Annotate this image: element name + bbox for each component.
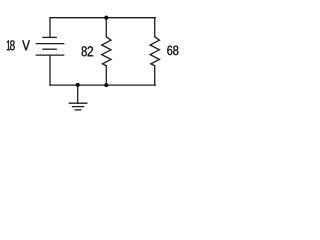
label 68 digit 8 [173,46,178,56]
wire battery top stub [49,18,51,37]
junction dot ground node [76,83,80,87]
label 82 digit 8 [82,46,87,56]
ground stem [77,85,79,103]
junction dot bottom node B at R82 [104,83,108,87]
wire R82 bottom stub [105,66,107,85]
wire R68 top stub [154,18,156,37]
label 68 digit 6 [167,46,172,56]
label 82 digit 2 [88,46,94,56]
wire battery bottom stub [49,55,51,85]
resistor R82 zigzag [102,37,111,66]
ground bar 3 [75,109,81,111]
ground bar 1 [69,102,87,104]
battery VS 18 V plates [36,37,63,55]
ground bar 2 [72,106,83,108]
label 18 V digit 1 [7,40,10,50]
wire top horizontal [50,17,155,19]
wire R82 top stub [105,18,107,37]
wire bottom horizontal [50,84,155,86]
label 18 V digit 8 [10,40,15,50]
wire R68 bottom stub [154,66,156,85]
junction dot top node A [104,16,108,20]
resistor R68 zigzag [150,37,159,66]
label 18 V letter V [22,40,30,50]
